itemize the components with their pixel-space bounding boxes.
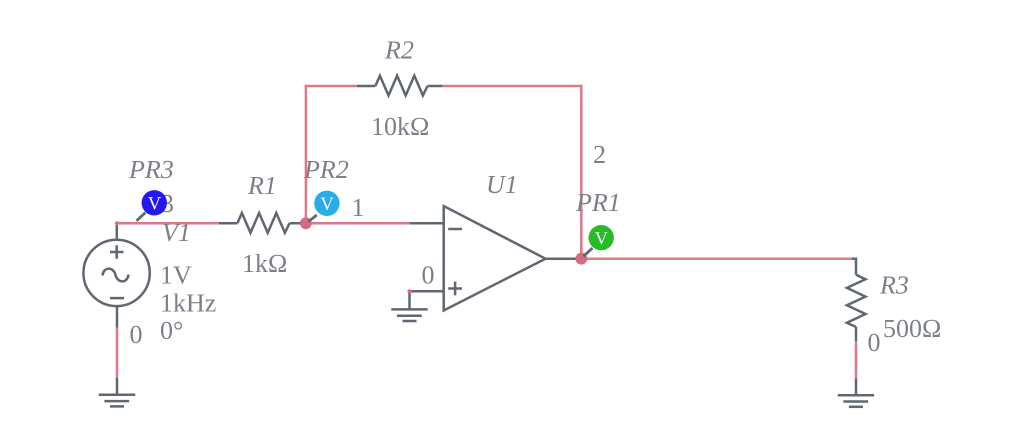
wire net 2: vertical down to output junction [580,85,583,259]
wire net 0: R3 bottom to ground [855,341,858,379]
op-amp U1 triangle [444,206,546,311]
wire net 0: V1 bottom to ground [116,328,119,378]
label PR2 [304,161,348,178]
V1 value 1kHz [162,293,215,311]
label V1 [163,224,188,242]
V1 value 0 degrees [161,322,182,340]
op-amp minus input lead [410,222,444,225]
ground under V1 [99,395,135,407]
R2 value 10k Ohm [373,117,428,135]
R1 value 1k Ohm [244,254,286,272]
op-amp plus input lead and wire to ground [410,291,444,309]
node 3 label [162,195,173,212]
node 1 label [354,199,363,216]
wire net 2: output junction to R3 corner [581,257,852,260]
junction node 1 [300,217,312,229]
label R3 [880,276,908,293]
resistor R3 (vertical) [847,259,866,395]
probe PR1 tail [584,248,593,256]
resistor R1 [219,213,306,233]
V1 plus sign [110,245,124,259]
probe PR2 [314,191,339,216]
wire net 1: R1 right junction to op-amp minus input [306,222,410,225]
node 0 label at V1 [130,326,141,344]
V1 ground lead [116,378,119,394]
probe PR1 [589,225,614,250]
pin dot V1 top [115,221,119,225]
wire net 3: V1 top to R1 left [116,222,221,225]
wire net 1: vertical from junction up to R2 left [305,85,308,225]
resistor R2 [357,76,442,96]
V1 top lead [116,223,119,239]
junction node 2 [575,253,587,265]
V1 sine symbol [103,269,129,282]
op-amp minus symbol [448,228,462,231]
pin dot op-amp plus input [407,289,411,293]
wire net 2: R2 right to top-right corner [442,85,582,88]
label R1 [248,177,274,194]
ground at op-amp plus input [391,309,427,321]
V1 minus sign [110,297,124,300]
op-amp plus symbol [448,282,462,296]
op-amp output lead [546,257,582,260]
AC source V1 circle [83,240,149,306]
ground under R3 [838,395,874,407]
label R2 [385,41,413,58]
probe PR2 tail [308,215,317,222]
label PR1 [576,194,618,211]
label U1 [488,176,515,193]
label PR3 [129,161,173,178]
V1 value 1V [162,266,191,284]
node 2 label [594,146,604,163]
wire net 1: top horizontal into R2 [305,85,357,88]
V1 bottom lead [116,306,119,327]
probe PR3 [142,190,167,215]
R3 value 500 Ohm [885,320,940,338]
node 0 label at R3 [868,334,879,352]
node 0 label at op-amp [422,266,433,284]
probe PR3 tail [137,213,146,221]
